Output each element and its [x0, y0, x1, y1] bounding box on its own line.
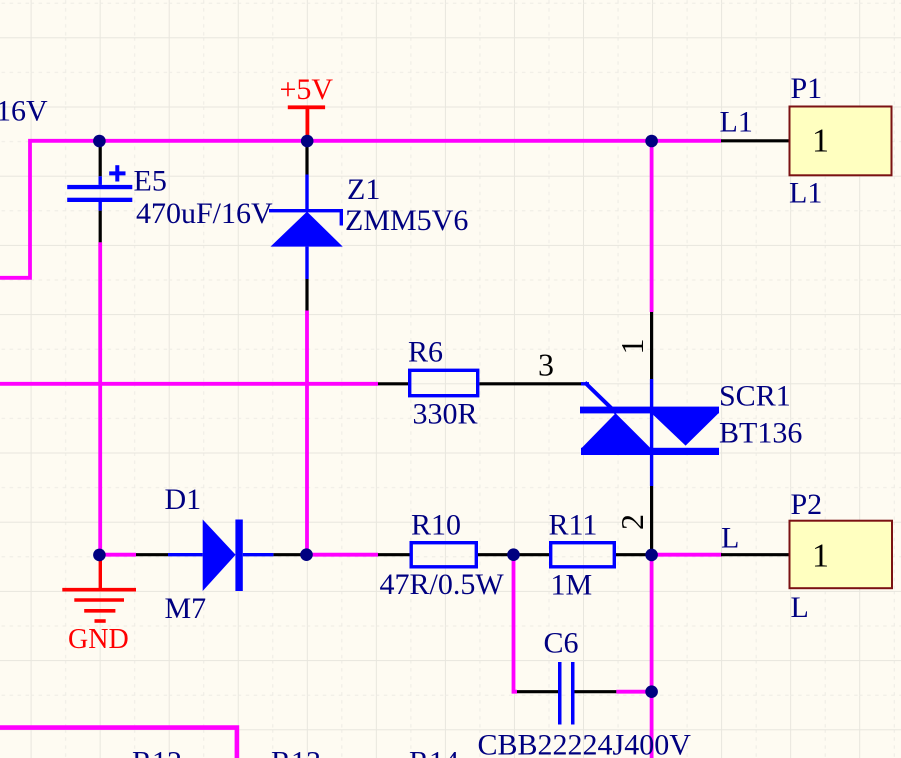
svg-text:1: 1 — [812, 538, 829, 575]
svg-text:C6: C6 — [544, 627, 579, 660]
connector P2 — [790, 521, 893, 589]
diode D1 — [168, 520, 273, 592]
svg-text:L1: L1 — [789, 177, 822, 210]
svg-text:16V: 16V — [0, 94, 48, 127]
svg-text:P1: P1 — [791, 72, 823, 105]
pin E5 bottom (black) — [99, 211, 102, 243]
triac SCR1 — [580, 379, 719, 486]
junction at D1 cathode / Z1 anode — [300, 548, 313, 561]
svg-text:R12: R12 — [132, 745, 182, 758]
wire C6 right to L net — [616, 690, 651, 694]
svg-text:SCR1: SCR1 — [719, 380, 791, 413]
resistor R10 — [411, 543, 476, 567]
svg-text:ZMM5V6: ZMM5V6 — [345, 204, 468, 237]
svg-text:L: L — [791, 591, 809, 624]
pin SCR1 MT1 bottom (black) — [650, 486, 653, 555]
pin R10 right / R11 left (black) — [478, 553, 549, 556]
pin D1 anode (black) — [136, 553, 168, 556]
svg-text:L1: L1 — [720, 106, 753, 139]
junction at R10/R11/C6 — [507, 548, 520, 561]
svg-text:R13: R13 — [271, 745, 321, 758]
power +5V symbol — [288, 105, 325, 139]
svg-text:3: 3 — [538, 347, 554, 383]
wire triac MT2 vertical from L1 node — [650, 141, 654, 312]
junction at E5 top — [93, 135, 106, 148]
pin P2 (black) — [721, 553, 790, 556]
resistor R11 — [551, 543, 615, 567]
junction at +5V / Z1 — [301, 135, 314, 148]
wire Z1 anode vertical down to D1 node — [305, 311, 309, 555]
svg-text:R14: R14 — [409, 745, 459, 758]
capacitor C6 — [558, 662, 575, 725]
svg-text:R11: R11 — [549, 509, 598, 542]
svg-text:2: 2 — [614, 514, 650, 530]
pin R11 right (black) — [616, 553, 652, 556]
wire E5 bottom vertical to GND node — [98, 242, 102, 554]
pin Z1 bottom (black) — [305, 279, 308, 311]
svg-text:+5V: +5V — [280, 73, 334, 106]
pin E5 top (black) — [99, 147, 102, 177]
svg-text:M7: M7 — [165, 592, 207, 625]
junction at L1 / triac MT2 — [645, 135, 658, 148]
svg-text:1: 1 — [812, 123, 829, 160]
pin P1 (black) — [721, 139, 790, 142]
svg-text:1M: 1M — [551, 569, 593, 602]
pin C6 right (black) — [575, 690, 617, 693]
resistor R6 — [410, 370, 478, 395]
ground GND symbol — [62, 556, 136, 621]
svg-text:GND: GND — [68, 624, 129, 655]
wire GND node to D1 anode stub — [100, 553, 136, 557]
pin D1 cathode (black) — [273, 553, 306, 556]
pin C6 left (black) — [517, 690, 558, 693]
wire R6 input horizontal from left edge — [0, 382, 378, 386]
svg-text:1: 1 — [614, 339, 650, 355]
wire L net vertical to bottom edge — [650, 555, 654, 758]
wire bottom-left thick net — [0, 728, 237, 758]
zener diode Z1 — [269, 175, 343, 280]
pin Z1 top (black) — [305, 147, 308, 175]
connector P1 — [790, 107, 892, 176]
svg-text:BT136: BT136 — [719, 416, 802, 449]
wire R6 output to triac gate pin 3 (black) — [479, 382, 583, 385]
wire L node: junction to P2 — [652, 553, 722, 557]
wire net VCC16V top: left stub, left vertical, top horizontal to P1 — [0, 141, 721, 278]
pin SCR1 MT2 top (black) — [650, 312, 653, 379]
pin R10 left (black) — [378, 553, 410, 556]
svg-text:R10: R10 — [411, 509, 461, 542]
junction at C6 right / L net — [645, 685, 658, 698]
svg-text:CBB22224J400V: CBB22224J400V — [478, 729, 692, 758]
svg-text:L: L — [721, 521, 739, 554]
svg-text:Z1: Z1 — [347, 173, 380, 206]
svg-text:E5: E5 — [134, 165, 167, 198]
pin R6 left (black) — [378, 382, 408, 385]
svg-text:47R/0.5W: 47R/0.5W — [380, 568, 505, 601]
junction at GND node — [93, 549, 106, 562]
svg-text:P2: P2 — [791, 488, 823, 521]
capacitor E5 — [67, 165, 132, 210]
junction at L node — [645, 549, 658, 562]
svg-text:330R: 330R — [413, 398, 478, 431]
svg-text:R6: R6 — [408, 336, 443, 369]
svg-text:D1: D1 — [165, 483, 202, 516]
wire D1 cathode node to R10 — [307, 553, 379, 557]
svg-text:470uF/16V: 470uF/16V — [136, 197, 273, 230]
wire C6 left vertical from R10/R11 node — [514, 555, 518, 692]
